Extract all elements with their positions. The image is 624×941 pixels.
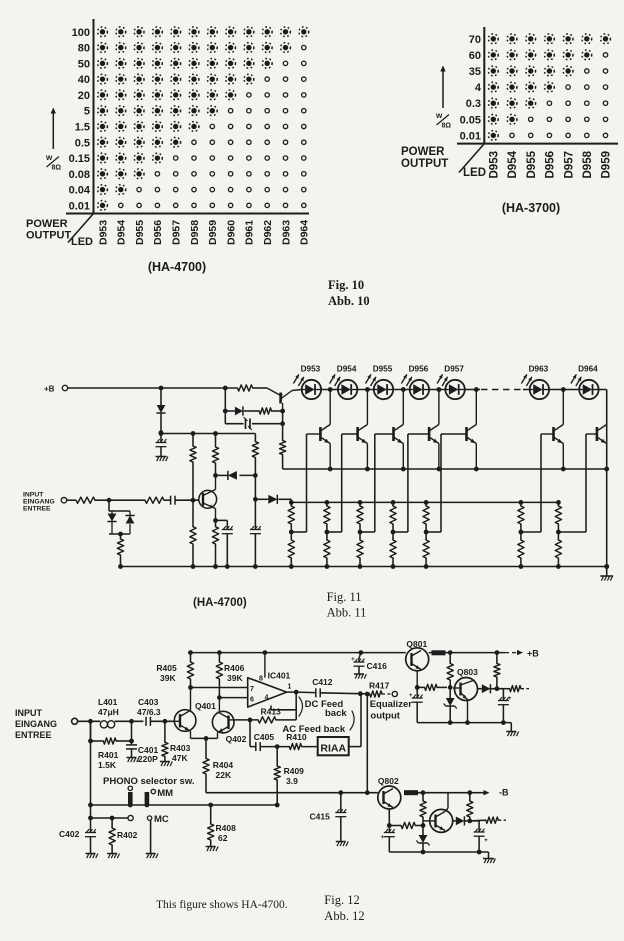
svg-text:6: 6 [250,697,254,704]
wire emitters Q401 Q402 [191,736,218,741]
wire cap branch [225,411,285,426]
chart HA-4700 W/8ohm unit [45,153,61,172]
capacitor C415 [310,793,347,841]
ground R402 [107,854,119,859]
svg-text:output: output [370,711,400,722]
resistor bias right [494,653,500,689]
capacitor output right [497,689,512,723]
Fig.10 caption [328,278,370,308]
capacitor C416 [351,653,387,674]
svg-text:LED: LED [463,167,486,179]
resistor divider col1 upper [288,502,294,534]
resistor divider col7 upper [555,502,561,534]
resistor rail series [237,385,252,391]
resistor divider col1 lower [288,532,294,567]
transistor LED driver 5 [441,390,476,470]
label equalizer output [370,699,413,722]
resistor divider col4 lower [390,532,396,567]
resistor emitter [212,520,218,566]
svg-text:0.3: 0.3 [466,98,481,110]
ground Fig11 right [600,567,613,581]
wire pin6 [219,697,247,699]
svg-text:Abb. 12: Abb. 12 [324,909,364,923]
ground C415 [336,842,348,847]
resistor divider col5 upper [423,502,429,534]
wire RIAA feedback [349,695,361,747]
wire top rail Fig12 [188,650,406,655]
wire col1 tap [291,531,306,533]
LED D955 [366,365,394,400]
svg-text:OUTPUT: OUTPUT [26,230,72,242]
resistor input series 1 [76,497,95,503]
capacitor C402 [59,829,96,853]
chart HA-3700 axis diagonal [459,144,484,173]
resistor base lower [190,500,196,566]
svg-text:Fig. 12: Fig. 12 [324,893,359,907]
resistor col1 link [290,499,292,502]
svg-text:Q802: Q802 [378,776,399,786]
svg-text:4: 4 [475,82,482,94]
ground Q802 section [483,852,495,863]
wire MC node [91,815,134,820]
wire +B rail [68,386,267,391]
wire resistor bus [289,500,561,505]
chart HA-4700 LED column labels [97,220,310,245]
svg-text:Abb. 11: Abb. 11 [327,606,367,620]
wire Q802 bar [404,790,418,795]
svg-text:40: 40 [78,74,90,86]
capacitor input coupling [171,496,175,505]
diode level shift [255,495,291,504]
resistor -B bias 1 [420,793,426,826]
wire Q801 section bottom [417,720,511,725]
diode clamp left [228,471,237,480]
wire right edge vertical [604,390,609,569]
svg-text:ENTREE: ENTREE [23,506,51,513]
node MC terminal [147,814,169,825]
svg-text:R402: R402 [117,830,138,840]
transistor LED driver 2 [342,390,368,470]
transistor Q-source (PNP) [267,388,302,411]
svg-text:D953: D953 [97,220,109,245]
svg-text:D963: D963 [280,220,292,245]
svg-text:0.04: 0.04 [69,185,91,197]
svg-text:35: 35 [469,66,481,78]
transistor LED driver 4 [408,390,439,470]
Fig11 caption [193,597,247,609]
resistor -B out [470,817,506,823]
svg-text:+: + [409,693,413,699]
wire col3 tap [360,531,375,533]
ground MC [146,854,158,859]
capacitor Q801 out [409,687,423,722]
transistor Q801 [406,639,429,687]
zener Q803 base [444,687,457,722]
resistor R409 [274,747,304,805]
op-amp IC401 [248,653,292,708]
svg-text:D956: D956 [409,365,429,374]
diode D (rail branch) [156,388,165,433]
chart HA-3700 axis arrow [440,66,445,109]
resistor divider col6 lower [518,532,524,567]
resistor input series 2 [145,497,164,503]
chart HA-3700 caption [502,201,560,215]
chart HA-4700 power scale labels [69,27,91,213]
input label Fig11 [23,492,55,513]
wire emitter rail [283,467,607,472]
chart HA-4700 caption [148,260,206,274]
chart HA-4700 LED matrix dots [98,27,309,210]
resistor divider col6 upper [518,502,524,534]
label AC feed back [282,711,354,735]
svg-text:70: 70 [469,34,481,46]
svg-text:100: 100 [72,27,90,39]
svg-text:Q402: Q402 [226,734,247,744]
svg-text:D953: D953 [489,151,501,179]
svg-text:47μH: 47μH [98,707,119,717]
svg-text:C405: C405 [254,732,275,742]
svg-text:R408: R408 [216,823,237,833]
svg-text:D962: D962 [262,220,274,245]
svg-text:POWER: POWER [26,218,68,230]
node junction x161 [159,430,164,435]
resistor R405 [156,653,193,690]
svg-text:Abb. 10: Abb. 10 [328,294,370,308]
svg-text:ENTREE: ENTREE [15,730,52,740]
wire Q802 section bottom [389,850,488,855]
svg-text:C416: C416 [367,661,388,671]
svg-text:0.15: 0.15 [69,153,90,165]
svg-text:RIAA: RIAA [320,743,346,755]
svg-text:1.5K: 1.5K [98,760,117,770]
svg-text:w: w [45,153,53,162]
svg-text:62: 62 [218,833,228,843]
capacitor Q802 [381,809,395,852]
diode -B out [453,816,472,825]
svg-text:D956: D956 [152,220,164,245]
resistor bias Q803 [447,653,453,688]
svg-text:R405: R405 [156,663,177,673]
wire AC feedback up [250,720,256,747]
svg-text:220P: 220P [138,754,158,764]
wire diode row [216,473,258,478]
svg-text:+B: +B [44,385,55,394]
chart HA-4700 axis arrow [51,108,56,150]
svg-text:R403: R403 [170,743,191,753]
caption This figure [156,899,288,911]
chart HA-3700 vertical axis [483,27,485,145]
svg-text:D954: D954 [507,150,519,178]
svg-text:4: 4 [265,695,269,702]
diode bias [235,406,243,415]
svg-text:R410: R410 [286,732,307,742]
wire after C412 [320,691,362,696]
svg-text:0.01: 0.01 [69,200,90,212]
label DC feed back [299,697,347,719]
resistor divider col4 upper [390,502,396,534]
svg-text:22K: 22K [216,770,232,780]
svg-text:Fig. 11: Fig. 11 [327,590,362,604]
svg-text:7: 7 [250,686,254,693]
wire input shunt branch [88,721,93,832]
capacitor C403 [137,697,161,726]
box RIAA [318,737,349,755]
ground C401 [127,758,139,763]
svg-text:R404: R404 [213,760,234,770]
transistor Q803 [453,667,478,723]
svg-text:w: w [435,111,443,120]
wire -B rail right [418,790,490,795]
svg-text:D964: D964 [299,220,311,245]
resistor divider col2 upper [324,502,330,534]
svg-text:80: 80 [78,43,90,55]
svg-text:LED: LED [71,236,93,248]
wire Q801 bar [429,650,446,655]
svg-text:D955: D955 [134,220,146,245]
LED D963 [521,365,549,400]
svg-text:D961: D961 [244,220,256,245]
LED D957 [437,365,465,400]
resistor divider col2 lower [324,532,330,567]
chart HA-4700 LED axis label [71,236,93,248]
chart HA-3700 horizontal axis [457,143,618,145]
wire bias [244,410,259,412]
resistor R403 [162,721,191,763]
capacitor -B out [470,821,488,852]
node input terminal Fig12 [72,718,78,724]
wire input 3 [164,499,171,501]
resistor divider col3 lower [357,532,363,567]
svg-text:8Ω: 8Ω [52,165,62,172]
resistor R401 [88,721,131,770]
resistor x255 [252,434,258,502]
svg-text:OUTPUT: OUTPUT [401,158,448,170]
wire input main 2 [115,719,144,724]
svg-text:R409: R409 [284,766,305,776]
transistor LED driver 3 [375,390,404,470]
wire pin4 [271,706,296,710]
label -B [499,788,509,798]
svg-text:47K: 47K [172,753,188,763]
svg-text:D959: D959 [207,220,219,245]
svg-text:Fig. 10: Fig. 10 [328,278,364,292]
svg-text:D955: D955 [373,365,393,374]
resistor R417 [360,681,389,698]
ground (rail branch) [156,457,168,462]
svg-text:8Ω: 8Ω [442,123,452,130]
diode protect down [107,511,116,534]
svg-text:D959: D959 [601,151,613,179]
resistor Q801-Q803 [417,684,452,690]
svg-text:20: 20 [78,90,90,102]
svg-text:R406: R406 [224,663,245,673]
capacitor C405 [254,732,275,751]
svg-text:0.01: 0.01 [460,130,481,142]
svg-text:+: + [484,837,488,844]
svg-text:D956: D956 [545,151,557,179]
wire LED chain [321,387,480,392]
resistor R408 [208,805,236,846]
resistor divider col5 lower [423,532,429,567]
svg-text:D957: D957 [444,365,464,374]
svg-text:+: + [508,696,512,702]
wire input [67,499,76,501]
svg-text:EINGANG: EINGANG [23,499,55,506]
svg-text:39K: 39K [160,673,176,683]
transistor LED driver 1 [307,390,331,470]
chart HA-4700 axis diagonal [68,214,94,243]
svg-text:Q803: Q803 [457,667,478,677]
wire y434 [159,431,256,436]
resistor -B bias 2 [467,793,473,821]
resistor x283 [280,411,286,469]
node equalizer output terminal [392,691,397,696]
wire LED chain right [523,387,607,392]
ground C416 [354,674,366,679]
svg-text:50: 50 [78,58,90,70]
LED D956 [401,365,429,400]
capacitor C401 [126,721,158,764]
resistor bias [259,408,271,414]
resistor divider col3 upper [357,502,363,534]
wire ground rail [118,564,609,569]
svg-text:Equalizer: Equalizer [370,699,413,710]
inductor L401 [98,697,119,728]
svg-text:(HA-3700): (HA-3700) [502,201,560,215]
transistor LED driver 7 [586,390,607,470]
svg-text:C402: C402 [59,829,80,839]
resistor R402 [109,818,138,853]
wire input main 3 [150,719,174,724]
svg-text:R401: R401 [98,750,119,760]
transistor Q401 [174,688,216,739]
svg-text:0.5: 0.5 [75,137,90,149]
wire DC feedback vertical [295,692,297,720]
node input terminal Fig11 [61,498,66,503]
resistor R413 [234,707,296,724]
svg-text:D957: D957 [171,220,183,245]
svg-text:(HA-4700): (HA-4700) [193,597,247,609]
resistor input shunt [117,534,123,567]
chart HA-4700 horizontal axis [66,213,309,215]
svg-text:60: 60 [469,50,481,62]
svg-text:+: + [381,834,385,841]
resistor x216 upper [212,434,218,476]
svg-text:5: 5 [84,106,90,118]
ground C402 [86,854,98,859]
svg-text:-B: -B [499,788,509,798]
svg-text:D958: D958 [189,220,201,245]
wire diode pair top [109,500,130,511]
resistor output right [497,686,529,692]
svg-text:+: + [351,656,355,663]
input label Fig12 [15,708,57,740]
resistor R410 [286,732,307,750]
zener -B [416,826,429,853]
resistor x190 upper [190,434,196,501]
diode Q803 out [478,684,500,693]
svg-text:C403: C403 [138,697,159,707]
svg-text:C415: C415 [310,812,331,822]
capacitor emitter [222,526,233,566]
label +B [527,649,539,659]
wire opamp output [287,690,315,695]
capacitor (rail branch) [156,433,167,456]
svg-text:C412: C412 [312,677,333,687]
svg-text:D954: D954 [337,365,357,374]
wire input 2 [95,498,145,503]
svg-text:MM: MM [157,788,173,799]
svg-text:D953: D953 [301,365,321,374]
wire equalizer to Q802 base [365,692,370,796]
wire col5 tap [426,531,441,533]
node Q802 emitter [0,0,1,1]
node x216 collector [213,473,218,478]
svg-text:D958: D958 [582,150,594,178]
chart HA-3700 POWER OUTPUT label [401,146,448,170]
svg-text:R417: R417 [369,681,390,691]
svg-text:R413: R413 [261,707,282,717]
svg-text:D964: D964 [578,365,598,374]
wire input 4 [175,498,199,503]
capacitor bias [244,417,253,430]
transistor LED driver 6 [541,390,563,470]
resistor R406 [216,653,244,700]
svg-text:D960: D960 [225,220,237,245]
svg-text:0.08: 0.08 [69,169,90,181]
wire col7 tap [558,531,586,533]
wire +B rail right [446,650,524,655]
transistor Q-reg (-B) [423,793,453,833]
chart HA-3700 power scale labels [460,34,482,143]
wire MC ground [150,820,152,853]
ground R408 [206,847,218,852]
node Q801 emitter [415,685,420,690]
svg-text:INPUT: INPUT [15,708,43,718]
ground Q801 section [506,723,518,737]
wire dashed segment [481,389,523,391]
svg-text:MC: MC [154,814,169,825]
svg-text:IC401: IC401 [268,671,291,681]
wire x255 lower [250,499,261,566]
transistor Q802 [378,776,401,821]
LED D954 [330,365,358,400]
svg-text:1.5: 1.5 [75,121,90,133]
chart HA-3700 LED matrix dots [488,34,610,140]
chart HA-4700 vertical axis [93,19,95,215]
svg-text:47/6.3: 47/6.3 [137,707,161,717]
resistor Q802 emitter [387,822,426,828]
wire switch row [88,803,280,808]
svg-text:0.05: 0.05 [460,114,481,126]
wire col4 tap [393,531,408,533]
wire col6 tap [521,531,541,533]
switch MM [128,786,173,804]
wire bias to Q base [272,409,286,414]
svg-text:Q401: Q401 [195,701,216,711]
svg-text:D955: D955 [526,150,538,178]
svg-text:Q801: Q801 [406,639,427,649]
LED D953 [293,365,321,400]
wire emitter branch [216,520,228,529]
wire bias branch [223,388,235,413]
svg-text:+B: +B [527,649,539,659]
label PHONO selector [103,776,195,787]
svg-text:D963: D963 [529,365,549,374]
svg-text:8: 8 [259,676,263,683]
svg-text:EINGANG: EINGANG [15,719,57,729]
diode protect up [125,511,134,534]
